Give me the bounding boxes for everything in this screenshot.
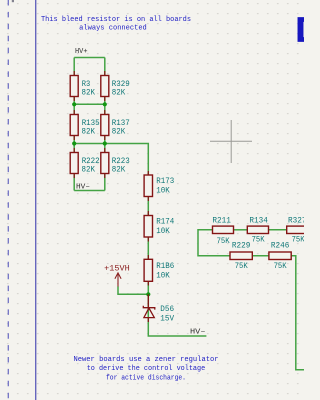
R211 body	[213, 226, 234, 233]
svg-text:R223: R223	[112, 158, 130, 166]
svg-text:R222: R222	[82, 158, 100, 166]
svg-text:82K: 82K	[82, 128, 96, 136]
R134 body	[247, 226, 268, 233]
wire left column vertical	[73, 58, 75, 191]
resistor R174	[144, 211, 175, 242]
svg-text:to derive the control voltage: to derive the control voltage	[87, 365, 206, 373]
svg-text:82K: 82K	[112, 166, 126, 174]
svg-text:75K: 75K	[217, 238, 230, 246]
R229 body	[230, 252, 252, 260]
note: zener regulator text	[74, 356, 219, 382]
svg-text:D: D	[296, 12, 305, 53]
wire junction row 1	[74, 103, 105, 105]
svg-text:D56: D56	[160, 306, 174, 314]
svg-text:R329: R329	[112, 81, 130, 89]
svg-text:HV–: HV–	[76, 184, 90, 192]
svg-text:R134: R134	[249, 217, 268, 225]
wire R211 to R134	[234, 229, 248, 231]
crosshair origin marker	[210, 120, 252, 163]
wire from +15VH to junction	[118, 287, 148, 295]
resistor R173	[144, 171, 175, 201]
note: bleed resistor text	[41, 16, 191, 33]
svg-text:R3: R3	[82, 81, 91, 89]
wire top HV+ horizontal	[74, 57, 105, 59]
resistor R1B6	[144, 255, 175, 286]
junction dot row1 right	[103, 102, 107, 106]
svg-text:R327: R327	[288, 217, 304, 225]
resistor R134	[247, 217, 268, 244]
sheet border solid line	[35, 0, 37, 400]
svg-text:75K: 75K	[292, 237, 304, 245]
wire middle column	[148, 197, 206, 337]
svg-text:HV+: HV+	[75, 48, 88, 56]
svg-text:R174: R174	[156, 219, 174, 227]
svg-text:82K: 82K	[112, 89, 126, 97]
wire right column vertical	[104, 58, 106, 191]
power symbol +15VH	[115, 273, 121, 287]
R174 body	[144, 216, 152, 238]
svg-text:R1B6: R1B6	[156, 263, 174, 271]
R3 body	[70, 76, 78, 97]
R327 body	[287, 226, 308, 233]
svg-text:75K: 75K	[235, 263, 248, 271]
svg-text:10K: 10K	[156, 188, 170, 196]
R173 body	[144, 175, 152, 197]
resistor R137	[101, 110, 130, 140]
resistor R3	[70, 71, 95, 101]
zener diode D56	[143, 294, 155, 322]
wire right network left elbow	[198, 230, 230, 256]
svg-text:82K: 82K	[112, 128, 126, 136]
svg-text:R246: R246	[271, 242, 290, 250]
sheet border dashed line	[7, 0, 9, 400]
R329 body	[101, 76, 109, 97]
svg-text:82K: 82K	[82, 166, 96, 174]
svg-text:for active discharge.: for active discharge.	[106, 374, 186, 382]
R246 body	[269, 252, 291, 260]
resistor R135	[70, 110, 100, 140]
svg-text:R229: R229	[232, 242, 251, 250]
svg-text:75K: 75K	[274, 263, 287, 271]
resistor R329	[101, 71, 130, 101]
R137 body	[101, 115, 109, 136]
svg-text:82K: 82K	[82, 89, 96, 97]
R135 body	[70, 115, 78, 136]
svg-text:15V: 15V	[160, 316, 174, 324]
R222 body	[70, 153, 78, 174]
R1B6 body	[144, 259, 152, 281]
svg-text:always connected: always connected	[79, 25, 147, 33]
svg-text:HV–: HV–	[190, 328, 206, 336]
junction dot row2 right	[103, 141, 107, 145]
wire junction row 2 to R173	[74, 144, 148, 176]
svg-text:R211: R211	[212, 217, 231, 225]
wire bottom HV- horizontal	[74, 190, 105, 192]
R223 body	[101, 153, 109, 174]
junction dot at R1B6 / D56	[146, 292, 150, 296]
junction dot row1 left	[72, 102, 76, 106]
wire R229 to R246	[252, 255, 269, 257]
svg-text:R137: R137	[112, 120, 130, 128]
junction dot row2 left	[72, 141, 76, 145]
svg-text:75K: 75K	[252, 237, 265, 245]
resistor R222	[70, 148, 100, 178]
svg-text:Newer boards use a zener regul: Newer boards use a zener regulator	[74, 356, 219, 364]
svg-text:10K: 10K	[156, 228, 170, 236]
wire R246 right down and out	[291, 256, 304, 370]
sheet corner mark	[12, 0, 14, 2]
resistor R229	[230, 242, 252, 271]
resistor R211	[212, 217, 233, 246]
svg-text:R173: R173	[156, 178, 174, 186]
resistor R246	[269, 242, 291, 271]
svg-text:This bleed resistor is on all: This bleed resistor is on all boards	[41, 16, 191, 24]
svg-text:+15VH: +15VH	[104, 266, 130, 274]
resistor R327 (clipped)	[287, 217, 308, 244]
svg-text:10K: 10K	[156, 272, 170, 280]
wire R134 to R327	[269, 229, 287, 231]
svg-text:R135: R135	[82, 120, 100, 128]
resistor R223	[101, 148, 130, 178]
